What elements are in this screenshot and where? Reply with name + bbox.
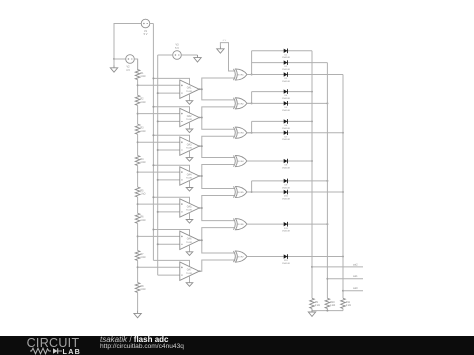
node ladder tap — [137, 266, 139, 268]
wire -input OA2 from rail2 — [158, 120, 180, 122]
wire OA2 output to XOR2 lower input — [199, 107, 234, 118]
wire +input OA1 from ladder tap — [138, 84, 180, 86]
node junction V2/ground — [113, 58, 115, 60]
node power rail junction — [152, 134, 154, 136]
wire ladder top lead — [137, 59, 139, 70]
wire output bus b1 — [326, 63, 328, 299]
wire diode row 8 — [247, 160, 312, 162]
wire diode row 12 — [247, 256, 343, 258]
node rail2 junction — [157, 120, 159, 122]
svg-text:D3: D3 — [284, 78, 288, 80]
node bus junction D7 — [342, 132, 344, 134]
wire OA6 output to XOR7 upper input — [202, 240, 234, 253]
node ladder tap — [137, 203, 139, 205]
diode D11 — [282, 222, 290, 233]
wire ladder segment — [137, 80, 139, 96]
ground for XOR1 input — [217, 46, 224, 53]
diode D9 — [282, 179, 290, 190]
node bus junction D10 — [342, 191, 344, 193]
wire V1 loop left — [114, 24, 141, 60]
wire diode row 9 — [252, 180, 328, 182]
wire riser from XOR2 output — [247, 92, 252, 104]
wire OA3 output to XOR4 upper input — [202, 146, 234, 157]
resistor R6 — [135, 213, 145, 223]
xor gate XOR7 — [234, 251, 248, 262]
svg-text:1 kΩ: 1 kΩ — [140, 161, 145, 164]
node bus junction D6 — [311, 120, 313, 122]
node bit stub junction b0 — [342, 290, 344, 292]
node bus junction D5 — [326, 102, 328, 104]
svg-text:1N4148: 1N4148 — [282, 98, 290, 100]
node ladder tap — [137, 235, 139, 237]
wire power line OA1 — [153, 78, 189, 84]
xor gate XOR5 — [234, 186, 248, 197]
xor gate XOR3 — [234, 127, 248, 138]
op-amp OA6 — [180, 231, 199, 249]
node riser branch XOR5 — [251, 191, 253, 193]
resistor R7 — [135, 251, 145, 261]
wire -input OA3 from rail2 — [158, 149, 180, 151]
rail2 from V3 — [157, 55, 159, 275]
wire power line OA3 — [153, 135, 189, 141]
diode D3 — [282, 72, 290, 83]
node OA7 output pin — [199, 270, 201, 272]
wire V2 to ladder — [134, 59, 137, 70]
wire bottom common — [312, 310, 343, 312]
svg-text:XOR6: XOR6 — [238, 224, 245, 226]
svg-text:OA5: OA5 — [187, 205, 192, 208]
svg-text:OA7: OA7 — [187, 269, 192, 272]
diode D7 — [282, 130, 290, 141]
ground below OA7 — [186, 282, 193, 286]
svg-text:1 kΩ: 1 kΩ — [346, 304, 351, 307]
wire power line OA5 — [153, 197, 189, 203]
diode D1 — [282, 49, 290, 60]
wire OA5 output to XOR6 upper input — [202, 208, 234, 221]
node bus junction D9 — [326, 180, 328, 182]
wire power line OA2 — [153, 107, 189, 113]
node OA2 output pin — [199, 117, 201, 119]
node riser branch XOR2 — [251, 102, 253, 104]
node bit stub junction b1 — [326, 278, 328, 280]
svg-text:TL081: TL081 — [186, 148, 193, 150]
wire junction to V2 — [114, 58, 126, 60]
svg-text:1N4148: 1N4148 — [282, 139, 290, 141]
node OA1 output branch — [201, 88, 203, 90]
svg-text:1 kΩ: 1 kΩ — [140, 288, 145, 291]
wire diode row 3 — [247, 74, 343, 76]
resistor R8 — [135, 283, 145, 293]
svg-text:1N4148: 1N4148 — [282, 167, 290, 169]
node bus junction D11 — [326, 223, 328, 225]
svg-text:0 V: 0 V — [223, 40, 227, 42]
node OA3 output pin — [199, 145, 201, 147]
node bit label b2 — [353, 263, 358, 266]
svg-text:XOR5: XOR5 — [238, 192, 245, 194]
diode D2 — [282, 60, 290, 71]
wire +input OA6 from ladder tap — [138, 235, 180, 237]
wire OA4 output to XOR4 lower input — [199, 165, 234, 176]
svg-text:TL081: TL081 — [186, 178, 193, 180]
wire OA5 output to XOR5 lower input — [199, 196, 234, 209]
wire ladder segment — [137, 197, 139, 213]
wire +input OA5 from ladder tap — [138, 203, 180, 205]
svg-text:1 kΩ: 1 kΩ — [315, 304, 320, 307]
svg-text:D4: D4 — [284, 95, 288, 97]
svg-text:OA1: OA1 — [187, 87, 192, 90]
wire diode row 6 — [252, 120, 312, 122]
wire ground to XOR1 input — [220, 43, 234, 71]
node bit label b0 — [353, 287, 358, 290]
svg-text:4 V: 4 V — [126, 69, 130, 72]
wire -input OA1 from rail2 — [158, 92, 180, 94]
svg-text:D1: D1 — [284, 54, 288, 56]
wire OA4 output to XOR5 upper input — [202, 176, 234, 189]
svg-text:D11: D11 — [284, 228, 289, 230]
svg-text:XOR2: XOR2 — [238, 103, 245, 105]
wire diode row 11 — [247, 223, 327, 225]
svg-text:TL081: TL081 — [186, 273, 193, 275]
svg-text:5 V: 5 V — [144, 33, 148, 36]
wire ladder bottom lead — [137, 293, 139, 311]
svg-text:D9: D9 — [284, 185, 288, 187]
node rail2 junction — [157, 243, 159, 245]
svg-text:1 kΩ: 1 kΩ — [140, 193, 145, 196]
diode D10 — [282, 190, 290, 201]
resistor R10 pulldown — [325, 298, 335, 308]
xor gate XOR2 — [234, 98, 248, 109]
resistor R3 — [135, 124, 145, 134]
ground at V2 — [110, 65, 117, 72]
node bottom common bus2 — [326, 310, 328, 312]
node ladder tap — [137, 141, 139, 143]
xor gate XOR6 — [234, 219, 248, 230]
node rail2 junction — [157, 211, 159, 213]
wire diode row 10 — [247, 191, 343, 193]
wire output bus b0 — [342, 75, 344, 299]
op-amp OA7 — [180, 262, 199, 280]
node OA2 output branch — [201, 117, 203, 119]
wire OA6 output to XOR6 lower input — [199, 228, 234, 241]
svg-text:1 kΩ: 1 kΩ — [140, 75, 145, 78]
svg-text:TL081: TL081 — [186, 91, 193, 93]
svg-text:OA4: OA4 — [187, 173, 192, 176]
node riser branch XOR3 — [251, 132, 253, 134]
resistor R9 pulldown — [310, 298, 320, 308]
ground output network — [308, 309, 315, 316]
op-amp OA2 — [180, 108, 199, 126]
svg-text:1N4148: 1N4148 — [282, 263, 290, 265]
svg-text:OA3: OA3 — [187, 144, 192, 147]
node power rail junction — [152, 164, 154, 166]
svg-text:1N4148: 1N4148 — [282, 187, 290, 189]
wire power line OA6 — [153, 230, 189, 236]
wire V2 ground lead — [113, 59, 115, 65]
wire +input OA2 from ladder tap — [138, 113, 180, 115]
wire bit output stub b0 — [343, 290, 363, 292]
svg-text:out0: out0 — [353, 287, 358, 290]
wire bit output stub b1 — [327, 278, 363, 280]
node bus junction D4 — [311, 91, 313, 93]
wire ladder segment — [137, 134, 139, 155]
svg-text:5 V: 5 V — [175, 47, 179, 50]
wire diode row 2 — [252, 62, 328, 64]
node ladder tap — [137, 113, 139, 115]
svg-text:XOR4: XOR4 — [238, 161, 245, 163]
node OA5 output branch — [201, 207, 203, 209]
wire OA2 output to XOR3 upper input — [202, 118, 234, 130]
svg-text:1N4148: 1N4148 — [282, 110, 290, 112]
node rail2 junction — [157, 149, 159, 151]
voltage source V3 — [173, 44, 182, 60]
wire OA3 output to XOR3 lower input — [199, 136, 234, 146]
svg-text:1 kΩ: 1 kΩ — [140, 256, 145, 259]
ground below OA6 — [186, 252, 193, 256]
wire OA6 negative supply stub — [189, 245, 191, 252]
node bus junction D8 — [311, 160, 313, 162]
wire +input OA4 from ladder tap — [138, 171, 180, 173]
diode D6 — [282, 119, 290, 130]
diode D12 — [282, 254, 290, 265]
ground below OA5 — [186, 219, 193, 223]
wire diode row 7 — [247, 132, 343, 134]
wire bit output stub b2 — [312, 266, 363, 268]
wire diode row 5 — [247, 102, 327, 104]
svg-text:out1: out1 — [353, 275, 358, 278]
resistor R1 — [135, 70, 145, 80]
wire +input OA7 from ladder tap — [138, 266, 180, 268]
wire OA7 negative supply stub — [189, 276, 191, 283]
op-amp OA1 — [180, 80, 199, 98]
node OA5 output pin — [199, 207, 201, 209]
node ladder tap — [137, 171, 139, 173]
wire riser from XOR1 output — [247, 51, 252, 75]
svg-text:TL081: TL081 — [186, 210, 193, 212]
ground at V3 — [194, 55, 201, 62]
svg-text:OA6: OA6 — [187, 238, 192, 241]
wire diode row 1 — [252, 50, 312, 52]
svg-text:D10: D10 — [284, 196, 289, 198]
node OA6 output branch — [201, 239, 203, 241]
diode D5 — [282, 101, 290, 112]
node OA3 output branch — [201, 145, 203, 147]
op-amp OA4 — [180, 167, 199, 185]
wire -input OA7 from rail2 — [158, 274, 180, 276]
svg-text:OA2: OA2 — [187, 115, 192, 118]
resistor R11 pulldown — [341, 298, 351, 308]
diode D8 — [282, 159, 290, 170]
node rail2 junction — [157, 92, 159, 94]
wire power line OA7 — [153, 260, 189, 266]
wire OA4 negative supply stub — [189, 181, 191, 188]
svg-text:TL081: TL081 — [186, 242, 193, 244]
wire resistor R9 bottom lead — [311, 309, 313, 311]
svg-text:D6: D6 — [284, 125, 288, 127]
wire OA7 output to XOR7 lower input — [199, 260, 234, 271]
ground ladder bottom — [134, 311, 141, 318]
wire ladder segment — [137, 223, 139, 250]
wire V3 to rail2 — [158, 54, 173, 56]
node bit stub junction b2 — [311, 266, 313, 268]
op-amp OA5 — [180, 199, 199, 217]
wire ladder segment — [137, 166, 139, 188]
node riser branch XOR1 — [251, 74, 253, 76]
svg-text:D5: D5 — [284, 107, 288, 109]
ground below OA1 — [186, 100, 193, 104]
ground below OA4 — [186, 187, 193, 191]
wire ladder segment — [137, 261, 139, 283]
wire resistor R11 bottom lead — [342, 309, 344, 311]
svg-text:TL081: TL081 — [186, 119, 193, 121]
node OA6 output pin — [199, 239, 201, 241]
svg-text:1N4148: 1N4148 — [282, 57, 290, 59]
svg-text:1N4148: 1N4148 — [282, 198, 290, 200]
xor gate XOR1 — [234, 69, 248, 80]
node OA4 output branch — [201, 175, 203, 177]
logo resistor symbol — [30, 347, 64, 355]
wire -input OA5 from rail2 — [158, 211, 180, 213]
wire output bus b2 — [311, 51, 313, 298]
wire OA1 output to XOR2 upper input — [202, 89, 234, 100]
svg-text:1 kΩ: 1 kΩ — [140, 130, 145, 133]
svg-text:D7: D7 — [284, 136, 288, 138]
svg-text:out2: out2 — [353, 263, 358, 266]
svg-text:1 kΩ: 1 kΩ — [140, 101, 145, 104]
wire riser from XOR3 output — [247, 121, 252, 132]
wire riser from XOR5 output — [247, 181, 252, 192]
wire -input OA6 from rail2 — [158, 243, 180, 245]
node rail2 junction — [157, 179, 159, 181]
node power rail junction — [152, 106, 154, 108]
wire OA1 negative supply stub — [189, 94, 191, 101]
svg-text:1N4148: 1N4148 — [282, 231, 290, 233]
node bus junction D12 — [342, 256, 344, 258]
wire diode row 4 — [252, 91, 312, 93]
wire V3 to ground — [181, 54, 197, 56]
ground below OA3 — [186, 157, 193, 161]
wire +input OA3 from ladder tap — [138, 141, 180, 143]
node OA1 output pin — [199, 88, 201, 90]
svg-text:XOR7: XOR7 — [238, 257, 245, 259]
wire V1 to rail — [150, 23, 154, 25]
node bit label b1 — [353, 275, 358, 278]
svg-text:D12: D12 — [284, 260, 289, 262]
node power rail junction — [152, 196, 154, 198]
wire OA2 negative supply stub — [189, 122, 191, 129]
svg-text:XOR3: XOR3 — [238, 133, 245, 135]
wire OA5 negative supply stub — [189, 213, 191, 220]
wire OA3 negative supply stub — [189, 151, 191, 158]
node net label 0V — [223, 40, 227, 42]
ground below OA2 — [186, 129, 193, 133]
node power rail junction — [152, 229, 154, 231]
svg-text:1N4148: 1N4148 — [282, 128, 290, 130]
resistor R4 — [135, 156, 145, 166]
wire power line OA4 — [153, 165, 189, 171]
svg-text:1N4148: 1N4148 — [282, 81, 290, 83]
op-amp OA3 — [180, 137, 199, 155]
node ladder tap — [137, 84, 139, 86]
svg-text:1N4148: 1N4148 — [282, 69, 290, 71]
wire ladder segment — [137, 105, 139, 124]
svg-text:1 kΩ: 1 kΩ — [330, 304, 335, 307]
svg-text:XOR1: XOR1 — [238, 75, 245, 77]
resistor R2 — [135, 95, 145, 105]
resistor R5 — [135, 187, 145, 197]
diode D4 — [282, 89, 290, 100]
node power rail junction — [152, 77, 154, 79]
node OA4 output pin — [199, 175, 201, 177]
svg-text:1 kΩ: 1 kΩ — [140, 219, 145, 222]
svg-text:D2: D2 — [284, 66, 288, 68]
voltage source V2 — [126, 55, 135, 72]
wire -input OA4 from rail2 — [158, 179, 180, 181]
xor gate XOR4 — [234, 155, 248, 166]
wire OA1 output to XOR1 lower input — [199, 78, 234, 89]
power rail from V1 — [152, 24, 154, 261]
svg-text:D8: D8 — [284, 165, 288, 167]
wire resistor R10 bottom lead — [326, 309, 328, 311]
voltage source V1 — [141, 19, 150, 36]
